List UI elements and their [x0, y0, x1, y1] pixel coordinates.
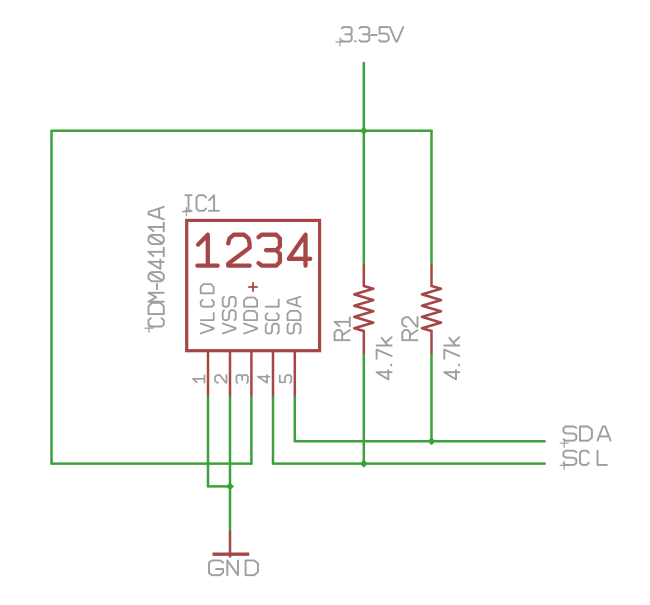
pin name SCL [266, 300, 279, 334]
origin cross SCL [560, 461, 569, 470]
wire GND jog [208, 485, 230, 488]
pin number 5 [280, 375, 292, 383]
pin name VLCD [201, 284, 214, 333]
label R2 [402, 317, 417, 340]
resistor R2 bottom lead [430, 331, 433, 354]
resistor R1 top lead [363, 265, 366, 287]
label R1 [335, 318, 350, 341]
wire pin 1 GND drop [207, 396, 210, 486]
wire SDA horizontal [295, 440, 545, 443]
ground symbol pin [229, 531, 232, 558]
wire R1 top [363, 131, 366, 265]
net label SDA [564, 427, 611, 441]
resistor R2 zigzag [422, 286, 441, 331]
wire 3.3-5V supply drop [363, 63, 366, 131]
origin cross IC1 [182, 207, 191, 216]
supply label 3.3-5V [342, 27, 403, 41]
wire top power rail [52, 130, 432, 133]
pin 1 stub [207, 351, 210, 397]
IC1 display digits 1234 [197, 235, 310, 266]
wire left power vertical [50, 131, 53, 464]
op-amp IC1 box outline [187, 220, 320, 350]
net label SCL [564, 451, 607, 465]
pin number 2 [215, 375, 227, 383]
pin name SDA [288, 297, 301, 334]
wire pin 5 SDA drop [294, 396, 297, 441]
pin number 4 [258, 375, 270, 383]
value 4.7k R2 [444, 337, 459, 379]
wire pin 3 VDD+ drop [250, 396, 253, 463]
pin name VDD [244, 298, 257, 334]
pin 3 stub [250, 351, 253, 397]
wire R2 bottom [430, 354, 433, 441]
origin cross SDA [560, 439, 569, 448]
origin cross 3.3-5V [336, 38, 345, 47]
wire SCL horizontal [273, 462, 545, 465]
pin 5 stub [294, 351, 297, 397]
pin name VSS [223, 297, 236, 334]
pin number 1 [193, 375, 205, 382]
resistor R1 bottom lead [363, 331, 366, 354]
wire pin 2 GND drop [229, 396, 232, 486]
pin 2 stub [229, 351, 232, 397]
label IC1 [185, 195, 219, 211]
junction power rail [360, 127, 368, 135]
pin 4 stub [272, 351, 275, 397]
pin name VDD+ plus sign [248, 282, 258, 292]
wire R1 bottom [363, 354, 366, 464]
resistor R1 zigzag [354, 286, 373, 331]
wire bottom power horizontal to pin 3 [52, 462, 252, 465]
junction R1-SCL [360, 460, 368, 468]
junction GND net [226, 482, 234, 490]
junction R2-SDA [428, 437, 436, 445]
pin number 3 [236, 375, 248, 383]
value 4.7k R1 [377, 337, 392, 379]
ground symbol bar [213, 553, 250, 556]
value CDM-04101A [149, 207, 164, 327]
resistor R2 top lead [430, 265, 433, 287]
wire pin 4 SCL drop [272, 396, 275, 463]
wire R2 top [430, 131, 433, 265]
wire to GND symbol [229, 486, 232, 530]
label GND [209, 560, 258, 575]
origin cross CDM-04101A [145, 324, 154, 333]
